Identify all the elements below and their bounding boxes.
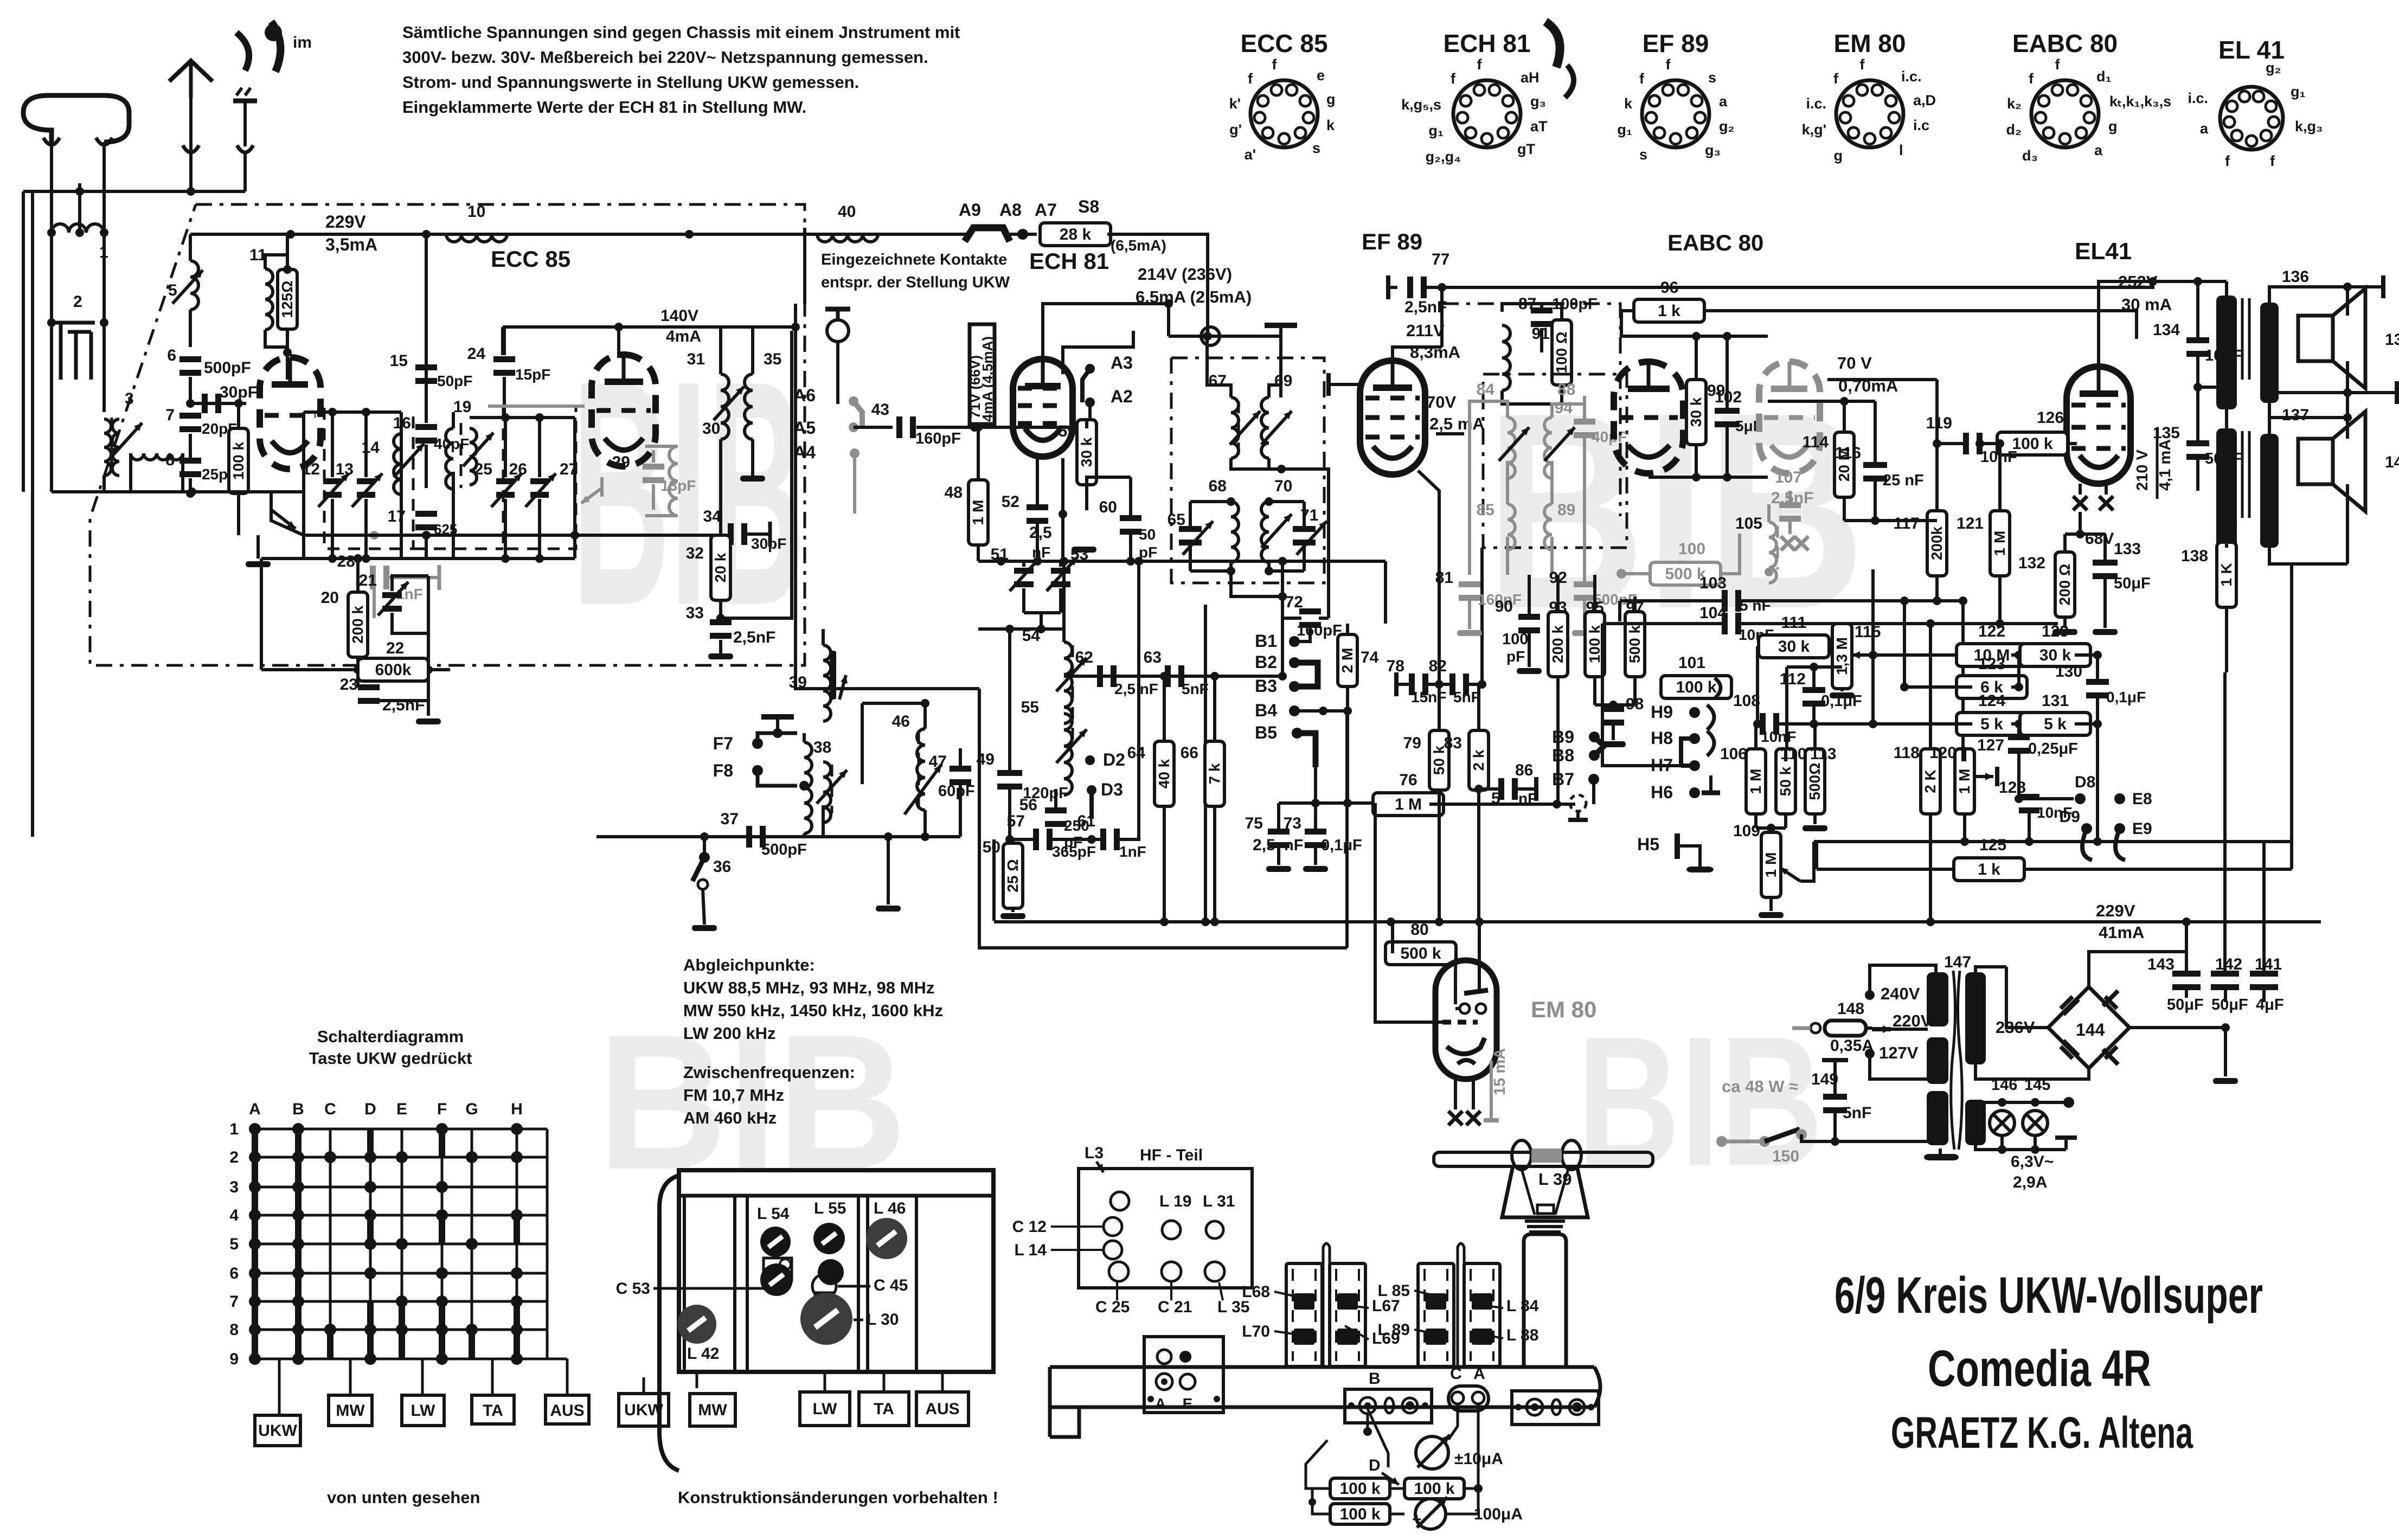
svg-text:Strom- und Spannungswerte in S: Strom- und Spannungswerte in Stellung UK… (402, 73, 859, 92)
label 6.3V (2011, 1153, 2054, 1191)
svg-text:k₂: k₂ (2007, 95, 2022, 112)
label L39 (1538, 1170, 1571, 1189)
svg-text:0,25μF: 0,25μF (2028, 740, 2078, 758)
svg-text:s: s (1312, 140, 1320, 156)
x marks (1781, 536, 1808, 550)
svg-text:200 k: 200 k (349, 606, 366, 644)
svg-text:30 mA: 30 mA (2121, 295, 2172, 314)
label L55 (814, 1199, 846, 1217)
coil 1 (47, 224, 108, 261)
wire (102, 323, 106, 412)
svg-text:57: 57 (1007, 812, 1025, 830)
IF1 ground top (1265, 325, 1297, 397)
EABC section boundary (1442, 304, 1620, 516)
resistor 76 1M (1373, 771, 1575, 816)
svg-text:1,3 M: 1,3 M (1833, 637, 1850, 675)
coil 46 (892, 713, 941, 841)
svg-text:124: 124 (1978, 692, 2005, 710)
svg-text:117: 117 (1894, 515, 1920, 532)
connector plate AE (1144, 1337, 1223, 1413)
svg-text:200 Ω: 200 Ω (2056, 564, 2073, 606)
svg-text:Sämtliche Spannungen sind gege: Sämtliche Spannungen sind gegen Chassis … (402, 23, 960, 42)
svg-text:1 M: 1 M (1762, 852, 1779, 878)
hatched knob L30 (800, 1293, 899, 1345)
svg-text:H8: H8 (1651, 728, 1673, 748)
svg-text:g₂,g₄: g₂,g₄ (1426, 149, 1461, 165)
svg-text:89: 89 (1557, 501, 1575, 519)
svg-text:Taste UKW gedrückt: Taste UKW gedrückt (309, 1049, 472, 1068)
svg-text:109: 109 (1733, 822, 1760, 840)
coil 11 (249, 246, 273, 330)
transformer 147 heater sec (1965, 1100, 1986, 1145)
wire ground rail (31, 191, 34, 837)
svg-text:GRAETZ K.G. Altena: GRAETZ K.G. Altena (1891, 1408, 2193, 1458)
svg-text:140V: 140V (660, 307, 698, 325)
coil 30 grey (645, 420, 720, 516)
contact B3 (1255, 676, 1300, 696)
wire (1343, 711, 1352, 807)
svg-text:LW: LW (411, 1402, 436, 1420)
svg-text:1 M: 1 M (1395, 795, 1422, 813)
svg-text:100 k: 100 k (1676, 678, 1716, 696)
trimcap 21 (359, 572, 433, 674)
label EM 80 grey (1531, 997, 1596, 1022)
svg-text:5 k: 5 k (1980, 715, 2003, 733)
label EL41 (2075, 238, 2132, 265)
resistor 64 40k (1127, 672, 1174, 926)
svg-text:28 k: 28 k (1060, 226, 1092, 243)
label L31 (1203, 1192, 1235, 1210)
svg-text:142: 142 (2215, 955, 2242, 973)
wires IF1 (1190, 332, 1329, 618)
svg-text:G: G (465, 1100, 478, 1118)
label ECH 81 (1029, 248, 1109, 274)
svg-text:25 Ω: 25 Ω (1004, 859, 1021, 892)
svg-text:g: g (2108, 118, 2118, 134)
svg-text:35: 35 (764, 350, 781, 368)
wire (304, 531, 721, 540)
wire (102, 476, 106, 492)
capacitor 128 10nF (1999, 779, 2072, 842)
resistor 114 20M (1803, 401, 1854, 521)
vertical 3454 (1869, 569, 1877, 728)
svg-text:500 k: 500 k (1400, 945, 1441, 963)
svg-text:aH: aH (1521, 69, 1540, 86)
wire switch to transformer (1801, 1134, 1928, 1146)
140V rail (503, 307, 800, 355)
ink smudge (265, 22, 312, 72)
svg-text:AUS: AUS (550, 1402, 584, 1420)
svg-text:g₂: g₂ (1719, 118, 1735, 134)
svg-text:600k: 600k (375, 661, 412, 679)
capacitor 15 50pF (390, 352, 473, 389)
svg-text:114: 114 (1803, 433, 1829, 451)
svg-text:8: 8 (165, 451, 175, 469)
hatched knob L46 (866, 1199, 907, 1259)
capacitor 2 (47, 293, 108, 380)
wire osc loop (979, 689, 1347, 948)
svg-text:7 k: 7 k (1206, 763, 1223, 784)
resistor 131 5k (2020, 692, 2102, 735)
wire 1481 (1279, 799, 1387, 807)
svg-text:229V: 229V (325, 212, 366, 232)
svg-text:B: B (1369, 1370, 1381, 1388)
svg-text:63: 63 (1144, 649, 1162, 666)
svg-text:A3: A3 (1111, 353, 1133, 373)
socket ECH 81 (1401, 29, 1548, 165)
svg-text:g₁: g₁ (1428, 123, 1444, 139)
resistor 11 125ohm (265, 234, 297, 357)
x marks EM80 (1448, 1079, 1480, 1125)
svg-text:70V: 70V (1426, 393, 1456, 412)
coil 105 (1735, 504, 1778, 583)
svg-text:40 k: 40 k (1156, 759, 1172, 788)
vertical pair (796, 228, 805, 672)
pot 109 1M (1733, 822, 1800, 918)
wire 46 top (862, 699, 960, 784)
label C12 (1012, 1218, 1103, 1236)
label ECC 85 (491, 246, 570, 272)
capacitor 17 625pF (388, 508, 458, 559)
svg-text:66: 66 (1181, 744, 1198, 762)
capacitor 57 365pF (1007, 812, 1096, 860)
svg-text:127: 127 (1977, 736, 2004, 754)
svg-text:73: 73 (1284, 814, 1301, 832)
contact A9 A8 (959, 200, 1022, 241)
cathode lead grey (581, 477, 602, 503)
resistor 32 20k (686, 535, 730, 623)
svg-text:15pF: 15pF (515, 366, 550, 383)
svg-text:29: 29 (612, 453, 630, 471)
ground (1072, 545, 1096, 560)
contact A7 (1017, 200, 1057, 240)
capacitor 107 2.5nF (1771, 469, 1813, 534)
svg-text:k,g': k,g' (1802, 121, 1826, 138)
chassis rear leads (644, 1372, 942, 1394)
svg-text:ECH 81: ECH 81 (1029, 248, 1109, 274)
svg-text:L3: L3 (1085, 1144, 1104, 1162)
capacitor 92 500pF (1549, 488, 1637, 636)
output transformer 136 (2216, 268, 2309, 409)
capacitor 34 30pF (703, 508, 787, 552)
wire 2987 vert (1619, 621, 1620, 705)
svg-text:EM 80: EM 80 (1531, 997, 1596, 1022)
button TA (472, 1395, 514, 1424)
229V rail (190, 230, 970, 239)
15mA bracket (1484, 1048, 1509, 1120)
svg-text:D3: D3 (1101, 780, 1123, 799)
svg-text:d₁: d₁ (2096, 68, 2112, 85)
capacitor 142 50uF (2211, 672, 2248, 1013)
label L3 (1085, 1144, 1104, 1172)
speaker 139 (2298, 288, 2399, 388)
svg-text:200k: 200k (1928, 526, 1945, 560)
svg-text:Abgleichpunkte:: Abgleichpunkte: (683, 955, 815, 974)
svg-text:H9: H9 (1651, 702, 1673, 722)
resistor 121 1M (1957, 439, 2010, 624)
svg-text:214V (236V): 214V (236V) (1138, 265, 1232, 284)
IF1 enclosure (1171, 358, 1324, 583)
svg-text:128: 128 (1999, 779, 2026, 797)
svg-text:62: 62 (1075, 649, 1093, 666)
svg-text:60: 60 (1099, 498, 1117, 516)
label L54 (757, 1205, 790, 1223)
svg-text:UKW 88,5 MHz, 93 MHz, 98 MHz: UKW 88,5 MHz, 93 MHz, 98 MHz (683, 978, 934, 997)
svg-text:a': a' (1245, 146, 1256, 163)
svg-text:139: 139 (2385, 331, 2399, 349)
svg-text:68V: 68V (2085, 530, 2114, 548)
resistor 48 1M (945, 423, 988, 561)
svg-text:0,1μF: 0,1μF (2106, 689, 2146, 705)
tube ECC85 triode b (592, 327, 656, 466)
svg-text:H: H (511, 1100, 523, 1118)
svg-text:15: 15 (390, 352, 408, 370)
svg-text:B8: B8 (1552, 746, 1574, 765)
label L35 (1217, 1282, 1250, 1316)
svg-text:64: 64 (1127, 744, 1146, 762)
transformer 3 core (111, 418, 113, 477)
coil 14 (362, 434, 424, 495)
contact B1 (1255, 626, 1310, 651)
svg-text:5: 5 (229, 1235, 239, 1253)
svg-text:g₁: g₁ (1617, 121, 1632, 138)
svg-text:135: 135 (2153, 424, 2180, 442)
HF holes top (1104, 1192, 1129, 1281)
resistor 113 500ohm (1803, 724, 1836, 831)
lamp wires top (1975, 1097, 2074, 1108)
capacitor 104 10nF (1602, 604, 2058, 643)
tap 240V (1865, 965, 1936, 1003)
svg-text:i.c.: i.c. (1806, 95, 1826, 112)
wire (1059, 458, 1067, 561)
resistor 118 2k (1894, 624, 1940, 922)
wire 211V (1393, 287, 1460, 362)
svg-text:500Ω: 500Ω (1806, 762, 1823, 800)
wire (1648, 336, 1768, 482)
svg-text:100 k: 100 k (1414, 1480, 1454, 1498)
capacitor 143 50uF (2147, 922, 2204, 1013)
contact B7 (1552, 769, 1599, 820)
svg-text:24: 24 (467, 345, 486, 363)
svg-text:9: 9 (229, 1350, 239, 1368)
wire 1247 (1064, 672, 1287, 681)
svg-text:1 k: 1 k (1978, 861, 2000, 878)
svg-text:E: E (1183, 1395, 1193, 1412)
contact B5 (1255, 723, 1316, 803)
meter 10uA (1416, 1435, 1503, 1469)
svg-text:150: 150 (1772, 1147, 1799, 1165)
svg-text:5: 5 (168, 281, 177, 299)
resistor 97 500k (1625, 596, 1645, 705)
contact A4 (793, 442, 859, 514)
svg-text:67: 67 (1209, 372, 1227, 390)
svg-text:nF: nF (1284, 837, 1303, 854)
meter circuit wires (1306, 1404, 1478, 1488)
resistor 132 200ohm (2018, 534, 2077, 635)
resistor 125 1k (1817, 564, 2292, 881)
svg-text:S8: S8 (1078, 197, 1099, 216)
svg-text:2 k: 2 k (1470, 749, 1487, 771)
watermark (598, 995, 907, 1210)
svg-text:L70: L70 (1242, 1323, 1270, 1340)
capacitor 119 10nF (1926, 414, 2017, 466)
svg-text:69: 69 (1274, 372, 1292, 390)
svg-text:30pF: 30pF (220, 383, 258, 401)
svg-text:H5: H5 (1637, 835, 1659, 854)
contact H7 (1602, 755, 1700, 775)
svg-text:C 12: C 12 (1012, 1218, 1047, 1236)
svg-text:100 Ω: 100 Ω (1553, 332, 1570, 374)
svg-text:123: 123 (1978, 655, 2005, 673)
svg-text:107: 107 (1775, 469, 1802, 486)
lamp 146 (1990, 1111, 2015, 1135)
svg-text:f: f (2055, 56, 2061, 73)
svg-text:l: l (1899, 142, 1903, 158)
wire cathode EL41 (2065, 530, 2114, 548)
x marks EL41 (2073, 484, 2113, 534)
svg-text:119: 119 (1926, 414, 1952, 432)
transformer 147 label (1944, 953, 1971, 971)
svg-text:88: 88 (1557, 381, 1575, 399)
svg-text:gT: gT (1517, 141, 1535, 157)
svg-text:A9: A9 (959, 200, 981, 220)
svg-text:50nF: 50nF (2205, 450, 2242, 467)
svg-text:46: 46 (892, 713, 910, 730)
wire cathode EF89 (1418, 471, 1439, 510)
label L84 (1486, 1297, 1539, 1315)
wire (1231, 571, 1282, 672)
capacitor 149 5nF (1811, 1060, 1871, 1141)
svg-text:41mA: 41mA (2099, 923, 2144, 942)
coil 85 grey (1477, 501, 1515, 550)
tube ECC85 triode a (260, 357, 320, 469)
capacitor 6 (167, 347, 251, 403)
svg-text:g₃: g₃ (1530, 93, 1546, 110)
transformer bottom gnd (1924, 1148, 1959, 1160)
resistor 83 2k (1444, 684, 1489, 922)
rectifier 144 (2048, 987, 2129, 1068)
chassis bar (1050, 1367, 1600, 1437)
svg-text:4: 4 (229, 1207, 239, 1224)
svg-text:2,5: 2,5 (1253, 836, 1275, 854)
svg-text:2: 2 (73, 293, 82, 311)
coil 68 (1209, 477, 1239, 562)
svg-text:3: 3 (229, 1178, 239, 1196)
coil 35 (740, 327, 781, 482)
svg-text:6: 6 (167, 347, 176, 364)
switch matrix labels (229, 1100, 523, 1368)
capacitor 37 500pF (721, 810, 807, 858)
meter 100uA (1412, 1488, 1523, 1529)
svg-text:entspr. der Stellung UKW: entspr. der Stellung UKW (821, 274, 1010, 291)
capacitor 63 5nF (1144, 649, 1209, 697)
antenna dipole (23, 95, 129, 145)
wire (1439, 510, 1482, 684)
wire bridge out (2129, 1023, 2238, 1084)
svg-text:LW: LW (813, 1400, 838, 1418)
wire (50, 142, 53, 233)
coil box F7 F8 (713, 728, 797, 786)
svg-text:L 89: L 89 (1378, 1321, 1410, 1339)
svg-text:L 14: L 14 (1015, 1241, 1047, 1259)
wire left rail (22, 191, 25, 492)
resistor S8 28k (1040, 197, 1208, 336)
button LW (402, 1395, 444, 1426)
IF can L84 L88 (1464, 1263, 1500, 1366)
switch matrix leads (279, 1359, 567, 1415)
svg-text:20: 20 (321, 589, 339, 607)
svg-text:115: 115 (1855, 623, 1881, 641)
svg-text:147: 147 (1944, 953, 1971, 971)
IF can L68 L70 (1286, 1263, 1322, 1366)
svg-text:146: 146 (1991, 1076, 2017, 1094)
svg-text:220V: 220V (1893, 1011, 1932, 1030)
wire (978, 625, 1064, 633)
svg-text:15nF: 15nF (1411, 689, 1446, 705)
svg-text:86: 86 (1515, 761, 1533, 779)
capacitor 28 1nF (337, 531, 439, 618)
svg-text:76: 76 (1399, 771, 1417, 789)
svg-text:141: 141 (2255, 955, 2282, 973)
svg-text:100 k: 100 k (1339, 1480, 1380, 1498)
knob L54 (760, 1227, 791, 1257)
wire (916, 423, 1014, 432)
capacitor 141 4uF (2250, 842, 2284, 1013)
IF can L67 L69 (1330, 1263, 1365, 1366)
capacitor 77 2.5nF (1388, 251, 2157, 316)
svg-text:L 31: L 31 (1203, 1192, 1235, 1210)
resistor 93 200k (1548, 575, 1568, 804)
svg-text:(6,5mA): (6,5mA) (1111, 237, 1166, 254)
svg-text:100 k: 100 k (2012, 435, 2052, 453)
contact A6 A5 (793, 386, 862, 438)
osc trimmer 51 (991, 546, 1040, 613)
svg-text:E: E (396, 1100, 407, 1118)
svg-text:D: D (364, 1100, 376, 1118)
resistor 101 100k (1661, 654, 1731, 698)
wire (102, 142, 106, 233)
wire (2225, 281, 2228, 428)
svg-text:240V: 240V (1881, 984, 1920, 1003)
long wire 1700 (994, 901, 2321, 942)
svg-text:100 k: 100 k (1586, 625, 1603, 663)
svg-text:111: 111 (1781, 614, 1807, 632)
svg-text:3,5mA: 3,5mA (325, 235, 377, 254)
wire grid line (186, 399, 246, 408)
svg-text:138: 138 (2181, 547, 2208, 565)
svg-text:50 k: 50 k (1777, 766, 1794, 796)
capacitor 127 0.25uF (1977, 724, 2078, 803)
watermark (572, 315, 805, 672)
connector CA (1448, 1365, 1489, 1411)
svg-text:108: 108 (1733, 692, 1760, 710)
contact H6 (1651, 775, 1720, 802)
resistor 99 30k (1686, 332, 1725, 477)
svg-text:105: 105 (1735, 515, 1762, 532)
lamp 145 (2023, 1111, 2048, 1135)
svg-text:von unten gesehen: von unten gesehen (327, 1488, 480, 1507)
svg-text:300V- bezw. 30V- Meßbereich: 300V- bezw. 30V- Meßbereich bei 220V~ Ne… (402, 48, 928, 67)
svg-text:L 55: L 55 (814, 1199, 846, 1217)
svg-text:HF - Teil: HF - Teil (1140, 1146, 1203, 1164)
resistor 80 500k (1385, 921, 1456, 971)
contact H9 (1651, 702, 1714, 730)
svg-text:f: f (1833, 70, 1839, 87)
svg-text:aT: aT (1530, 118, 1548, 134)
coil 89 grey (1544, 501, 1575, 550)
plug ring (1169, 327, 1220, 345)
transformer 3 secondary (112, 419, 142, 476)
